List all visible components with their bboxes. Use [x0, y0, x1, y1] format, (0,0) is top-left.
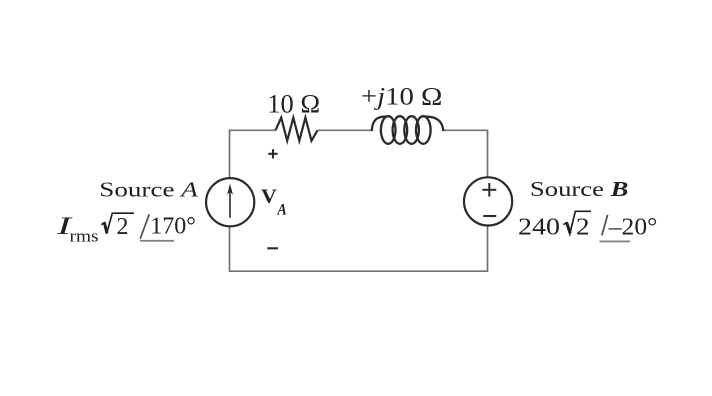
- svg-text:–20°: –20°: [608, 215, 658, 241]
- label Irms sqrt2 angle 170: [55, 211, 196, 246]
- svg-text:rms: rms: [70, 227, 99, 246]
- wire top-left segment: [230, 129, 276, 131]
- wire top-right segment: [443, 129, 488, 131]
- angle slash: [602, 215, 608, 236]
- wire left vertical upper: [229, 130, 231, 178]
- svg-text:V: V: [261, 185, 277, 207]
- svg-text:2: 2: [576, 214, 590, 240]
- inductor L coil: [372, 116, 444, 144]
- svg-text:A: A: [277, 201, 288, 218]
- svg-text:2: 2: [117, 214, 129, 240]
- svg-text:Source A: Source A: [99, 177, 198, 201]
- resistor R 10 ohm zigzag: [276, 118, 318, 141]
- radical sign: [564, 211, 592, 234]
- wire right vertical lower: [487, 226, 489, 272]
- plus sign inside source B: [482, 183, 496, 197]
- wire right vertical upper: [487, 130, 489, 178]
- current source arrow: [227, 184, 233, 218]
- svg-text:Source B: Source B: [530, 177, 629, 201]
- angle underline: [600, 240, 631, 242]
- wire bottom: [229, 270, 488, 272]
- angle underline: [140, 240, 174, 242]
- radical sign: [101, 213, 134, 234]
- angle slash: [140, 214, 149, 239]
- svg-text:+j10 Ω: +j10 Ω: [361, 82, 443, 111]
- label VA: [261, 185, 287, 218]
- wire top-middle segment: [318, 129, 373, 131]
- svg-text:170°: 170°: [150, 214, 196, 240]
- plus sign above VA: [268, 149, 277, 158]
- svg-text:10 Ω: 10 Ω: [267, 89, 320, 119]
- label 240 sqrt2 angle -20: [518, 211, 657, 241]
- minus sign below VA: [267, 247, 278, 249]
- voltage source circle (Source B): [464, 177, 512, 225]
- current source circle (Source A): [206, 178, 254, 226]
- minus sign inside source B: [483, 215, 496, 217]
- wire left vertical lower: [229, 227, 231, 272]
- svg-text:240: 240: [518, 215, 560, 241]
